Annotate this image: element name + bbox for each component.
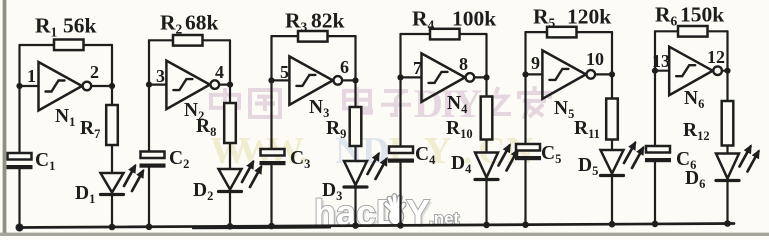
wire: right vertical (output node) stage 4 — [485, 34, 487, 97]
ground rail (common negative bus) — [18, 224, 734, 228]
resistor R12 — [722, 101, 734, 146]
wire: output stub stage 2 — [219, 83, 230, 85]
wire: output stub stage 5 — [595, 73, 612, 75]
LED D6 light-emission arrows — [740, 147, 751, 167]
wire: output stub stage 4 — [474, 76, 486, 78]
op-amp/inverter N4 (Schmitt trigger) — [422, 53, 466, 102]
node: ground junction right stage 2 — [227, 223, 234, 230]
wire: top feedback wire stage 5 — [526, 31, 613, 33]
wire: resistor to LED D3 — [354, 146, 356, 161]
svg-text:82k: 82k — [311, 9, 345, 33]
node: ground junction left stage 4 — [397, 222, 404, 229]
capacitor C5 — [516, 144, 540, 151]
LED D6 — [716, 154, 739, 179]
node: output junction stage 5 — [609, 71, 615, 77]
site watermark hacDIY.net — [314, 192, 462, 235]
op-amp/inverter N1 (Schmitt trigger) — [39, 62, 83, 111]
wire: right vertical (output node) stage 3 — [354, 36, 356, 107]
wire: input stub to inverter N1 — [20, 85, 39, 87]
wire: output stub stage 3 — [342, 79, 355, 81]
wire: LED D6 to ground — [726, 181, 728, 224]
wire: top feedback wire stage 1 — [20, 44, 113, 46]
svg-text:3: 3 — [156, 66, 165, 86]
LED D1 light-emission arrows — [124, 166, 135, 186]
wire: left vertical (input node) stage 4 — [399, 34, 401, 147]
LED D4 light-emission arrows — [499, 146, 510, 166]
node: input junction stage 6 — [652, 68, 658, 74]
wire: input stub to inverter N6 — [655, 70, 669, 72]
node: ground junction right stage 5 — [609, 221, 616, 228]
wire: below capacitor C4 to ground — [399, 161, 401, 226]
LED D1 — [101, 173, 124, 193]
svg-text:100k: 100k — [452, 7, 496, 31]
node: ground junction right stage 3 — [352, 222, 359, 229]
svg-text:5: 5 — [280, 62, 289, 82]
svg-text:1: 1 — [27, 66, 36, 86]
wire: left vertical (input node) stage 1 — [18, 45, 20, 153]
resistor R6 (150k) — [678, 26, 708, 37]
resistor R7 — [106, 105, 118, 145]
node: output junction stage 6 — [724, 68, 730, 74]
node: input junction stage 4 — [397, 74, 403, 80]
svg-text:4: 4 — [215, 62, 224, 82]
resistor R4 (100k) — [430, 29, 460, 40]
wire: LED D1 to ground — [111, 195, 113, 228]
svg-text:8: 8 — [459, 54, 468, 74]
wire: resistor to LED D5 — [611, 140, 613, 151]
LED D5 light-emission arrows — [624, 143, 635, 163]
wire: left vertical (input node) stage 5 — [524, 32, 526, 144]
watermark row 2: WWW.NDIY.CN — [210, 130, 533, 172]
wire: resistor to LED D2 — [229, 143, 231, 169]
op-amp/inverter N3 (Schmitt trigger) — [289, 56, 333, 105]
resistor R5 (120k) — [547, 27, 577, 38]
node: output junction stage 4 — [483, 74, 489, 80]
wire: input stub to inverter N4 — [401, 76, 422, 78]
wire: LED D5 to ground — [611, 176, 613, 225]
LED D4 — [475, 153, 498, 178]
resistor R8 — [224, 103, 236, 143]
node: input junction stage 5 — [522, 71, 528, 77]
scan border bottom — [0, 233, 769, 236]
node: output junction stage 1 — [109, 83, 115, 89]
wire: right vertical (output node) stage 2 — [229, 40, 231, 103]
wire: top feedback wire stage 4 — [401, 33, 487, 35]
svg-text:120k: 120k — [567, 5, 611, 29]
wire: resistor to LED D6 — [726, 146, 728, 154]
op-amp/inverter N6 (Schmitt trigger) — [669, 47, 713, 95]
wire: input stub to inverter N3 — [272, 79, 290, 81]
wire: LED D4 to ground — [485, 180, 487, 225]
node: input junction stage 3 — [268, 77, 274, 83]
svg-text:2: 2 — [90, 62, 99, 82]
resistor R10 — [481, 97, 493, 140]
resistor R11 — [606, 99, 618, 140]
wire: right vertical (output node) stage 6 — [726, 31, 728, 101]
resistor R1 (56k) — [54, 40, 84, 51]
wire: below capacitor C1 to ground — [18, 167, 20, 228]
LED D3 — [344, 161, 367, 185]
svg-text:7: 7 — [413, 58, 422, 78]
LED D2 — [219, 169, 242, 190]
node: input junction stage 2 — [146, 82, 152, 88]
node: input junction stage 1 — [16, 83, 22, 89]
wire: below capacitor C5 to ground — [524, 158, 526, 225]
capacitor C3 — [261, 149, 285, 156]
LED D2 light-emission arrows — [242, 162, 253, 182]
node: ground junction right stage 4 — [483, 222, 490, 229]
LED D3 light-emission arrows — [368, 154, 379, 174]
capacitor C2 — [141, 152, 165, 159]
wire: resistor to LED D1 — [111, 145, 113, 173]
wire: below capacitor C6 to ground — [654, 160, 656, 224]
node: ground junction right stage 1 — [109, 224, 116, 231]
wire: below capacitor C2 to ground — [148, 166, 150, 227]
wire: top feedback wire stage 2 — [149, 39, 230, 41]
svg-text:12: 12 — [707, 47, 725, 67]
node: ground junction left stage 5 — [522, 221, 529, 228]
op-amp/inverter N5 (Schmitt trigger) — [542, 50, 586, 99]
wire: right vertical (output node) stage 5 — [611, 32, 613, 98]
node: ground junction left stage 2 — [146, 224, 153, 231]
node: ground junction left stage 6 — [652, 221, 659, 228]
wire: resistor to LED D4 — [485, 140, 487, 153]
node: output junction stage 3 — [352, 77, 358, 83]
wire: left vertical (input node) stage 6 — [654, 31, 656, 146]
svg-text:10: 10 — [586, 49, 604, 69]
wire: top feedback wire stage 3 — [272, 35, 356, 37]
node: ground junction left stage 3 — [268, 223, 275, 230]
wire: right vertical (output node) stage 1 — [111, 45, 113, 105]
svg-text:68k: 68k — [185, 11, 219, 35]
op-amp/inverter N2 (Schmitt trigger) — [166, 61, 210, 110]
watermark row 1: 中国电子DIY之家 — [211, 81, 550, 126]
wire: LED D2 to ground — [229, 192, 231, 227]
svg-text:56k: 56k — [63, 14, 97, 38]
svg-text:6: 6 — [340, 57, 349, 77]
resistor R9 — [350, 107, 362, 146]
node: ground junction left stage 1 — [16, 224, 24, 232]
resistor R3 (82k) — [298, 31, 328, 42]
capacitor C1 — [8, 153, 32, 160]
capacitor C6 — [646, 146, 670, 153]
wire: left vertical (input node) stage 2 — [148, 40, 150, 151]
resistor R2 (68k) — [173, 35, 203, 46]
wire: LED D3 to ground — [354, 187, 356, 226]
wire: top feedback wire stage 6 — [655, 30, 728, 32]
wire: below capacitor C3 to ground — [270, 163, 272, 226]
wire: input stub to inverter N5 — [526, 73, 543, 75]
svg-text:9: 9 — [531, 53, 540, 73]
svg-text:150k: 150k — [680, 3, 724, 27]
node: output junction stage 2 — [227, 82, 233, 88]
svg-text:13: 13 — [652, 51, 670, 71]
wire: left vertical (input node) stage 3 — [270, 36, 272, 149]
node: ground junction right stage 6 — [724, 220, 731, 227]
scan border left — [3, 0, 7, 236]
svg-text:Y: Y — [406, 192, 430, 233]
wire: output stub stage 6 — [722, 70, 728, 72]
wire: input stub to inverter N2 — [149, 83, 166, 85]
LED D5 — [601, 150, 624, 174]
wire: output stub stage 1 — [91, 85, 112, 87]
capacitor C4 — [389, 147, 413, 154]
